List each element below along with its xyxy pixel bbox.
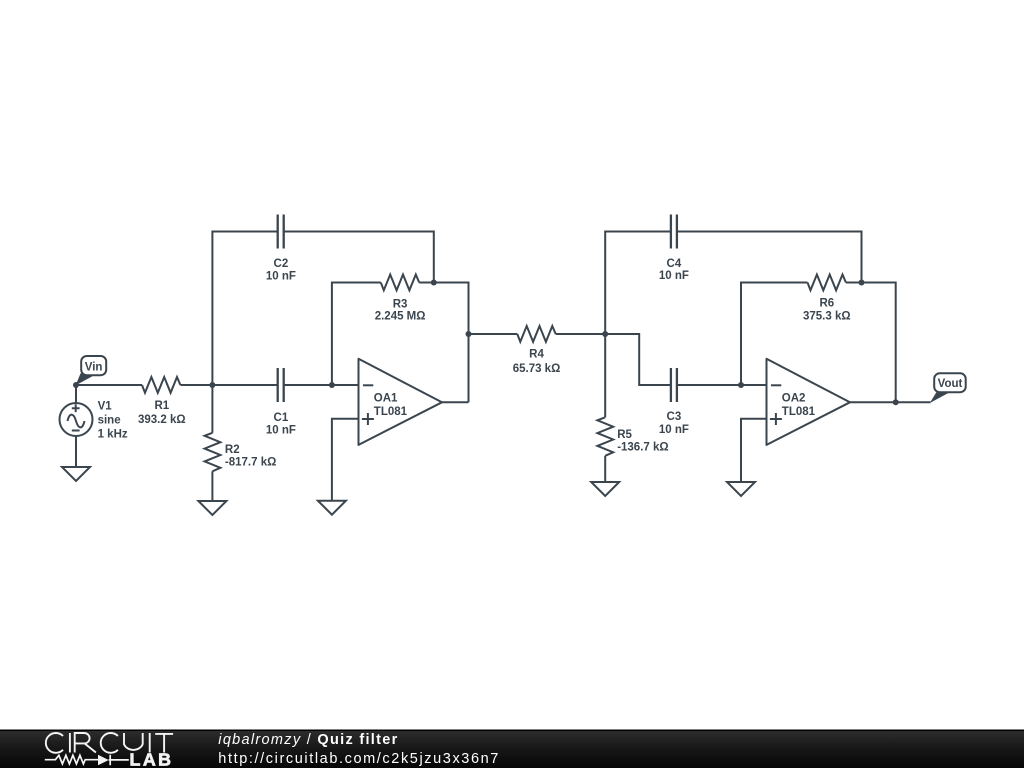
- resistor R1 393.2 k: [138, 377, 186, 426]
- svg-text:R4: R4: [529, 349, 544, 361]
- ground at OA2 plus input: [727, 482, 755, 496]
- svg-text:C1: C1: [274, 412, 289, 424]
- logo CIRCUIT wordmark: [46, 733, 173, 753]
- footer title text: [218, 732, 398, 748]
- wire: C3 to OA2 minus input: [677, 384, 767, 386]
- op-amp OA2 TL081: [767, 359, 850, 445]
- wire: OA2 plus input to ground: [741, 419, 767, 482]
- resistor R3 2.245 M: [375, 275, 426, 323]
- capacitor C1 10 nF: [266, 368, 296, 436]
- wire: OA2 minus node up to R6: [741, 283, 808, 386]
- wire: C2 feedback loop left and top: [212, 232, 277, 386]
- capacitor C2 10 nF: [266, 215, 296, 283]
- svg-text:TL081: TL081: [374, 406, 408, 418]
- node junction C4/R6: [859, 280, 865, 286]
- wire: C1 to OA1 minus input: [284, 384, 359, 386]
- wire: OA1 plus input to ground: [332, 419, 359, 501]
- svg-text:C4: C4: [667, 258, 682, 270]
- svg-text:Vout: Vout: [938, 378, 963, 390]
- svg-text:10 nF: 10 nF: [659, 424, 689, 436]
- wire: OA1 minus node up to R3: [332, 283, 381, 386]
- svg-text:Vin: Vin: [85, 362, 103, 374]
- node junction OA1 output column: [466, 331, 472, 337]
- svg-text:R2: R2: [225, 444, 240, 456]
- wire: mid junction jog to C3: [605, 334, 671, 385]
- wire: R1 to C1: [180, 384, 277, 386]
- svg-text:R5: R5: [617, 429, 632, 441]
- wire: R6 to output column of OA2: [846, 283, 896, 403]
- resistor R4 65.73 k: [513, 326, 561, 375]
- svg-text:R6: R6: [819, 297, 834, 309]
- wire: R3 to output column of OA1: [419, 283, 468, 403]
- resistor R2 -817.7 k (vertical): [205, 433, 277, 471]
- resistor R6 375.3 k: [803, 275, 851, 323]
- svg-text:C2: C2: [274, 258, 289, 270]
- flag Vin: [76, 356, 107, 385]
- wire: OA1 output column to R4: [469, 333, 518, 335]
- wire: C4 to R6 output junction: [677, 232, 862, 283]
- node junction OA2 output feedback tap: [893, 399, 899, 405]
- resistor R5 -136.7 k (vertical): [597, 417, 668, 455]
- node junction OA2 minus input: [738, 382, 744, 388]
- svg-text:http://circuitlab.com/c2k5jzu3: http://circuitlab.com/c2k5jzu3x36n7: [218, 751, 500, 767]
- svg-text:V1: V1: [98, 400, 113, 412]
- capacitor C3 10 nF: [659, 368, 689, 436]
- svg-text:-817.7 kΩ: -817.7 kΩ: [225, 457, 276, 469]
- wire: C2 to R3 output junction: [284, 232, 434, 283]
- svg-text:393.2 kΩ: 393.2 kΩ: [138, 414, 186, 426]
- svg-text:TL081: TL081: [782, 406, 816, 418]
- svg-text:375.3 kΩ: 375.3 kΩ: [803, 311, 851, 323]
- svg-text:OA1: OA1: [374, 393, 398, 405]
- svg-text:-136.7 kΩ: -136.7 kΩ: [617, 441, 668, 453]
- footer url text: [218, 751, 500, 767]
- logo resistor-diode symbol: [45, 755, 129, 766]
- voltage source V1 sine 1 kHz: [60, 385, 128, 467]
- svg-text:C3: C3: [667, 411, 682, 423]
- svg-text:10 nF: 10 nF: [266, 424, 296, 436]
- svg-text:1 kHz: 1 kHz: [98, 429, 128, 441]
- wire: R4 to mid junction: [556, 333, 606, 335]
- svg-text:OA2: OA2: [782, 393, 806, 405]
- capacitor C4 10 nF: [659, 215, 689, 283]
- node junction R1/R2/C1/C2: [209, 382, 215, 388]
- logo LAB wordmark: [130, 750, 174, 768]
- svg-text:R3: R3: [393, 298, 408, 310]
- svg-text:10 nF: 10 nF: [266, 270, 296, 282]
- svg-text:LAB: LAB: [130, 750, 174, 768]
- wire: R2 to ground: [211, 471, 213, 501]
- wire: R5 to ground: [604, 456, 606, 482]
- svg-text:R1: R1: [154, 400, 169, 412]
- svg-text:2.245 MΩ: 2.245 MΩ: [375, 310, 426, 322]
- wire: junction down to R2: [211, 385, 213, 433]
- svg-text:10 nF: 10 nF: [659, 270, 689, 282]
- wire: mid junction down to R5: [604, 334, 606, 417]
- svg-text:65.73 kΩ: 65.73 kΩ: [513, 363, 561, 375]
- svg-text:sine: sine: [98, 415, 121, 427]
- ground at OA1 plus input: [318, 501, 346, 515]
- node Vin junction dot: [73, 382, 79, 388]
- node junction R4/R5/C3/C4: [602, 331, 608, 337]
- ground below R2: [198, 501, 226, 515]
- op-amp OA1 TL081: [359, 359, 442, 445]
- ground below R5: [591, 482, 619, 496]
- flag Vout: [930, 373, 966, 403]
- footer bar background: [0, 730, 1024, 768]
- wire: OA1 output to feedback column: [442, 401, 469, 403]
- wire: Vin node to R1: [76, 384, 142, 386]
- node junction C2/R3: [431, 280, 437, 286]
- node junction OA1 minus input: [329, 382, 335, 388]
- svg-text:iqbalromzy / Quiz filter: iqbalromzy / Quiz filter: [218, 732, 398, 748]
- wire: C4 feedback loop left and top: [605, 232, 671, 335]
- ground below V1: [62, 467, 90, 481]
- wire: OA2 output to Vout: [850, 401, 931, 403]
